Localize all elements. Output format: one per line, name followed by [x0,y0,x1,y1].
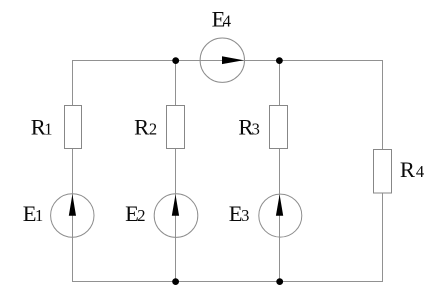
svg-text:R4: R4 [400,157,424,182]
resistor R2 [167,106,185,149]
source E3 arrow [276,195,283,216]
resistor R1 [65,106,82,149]
wire branch 1 vertical [72,60,74,282]
wire branch 4 vertical [382,60,384,282]
wire branch 3 vertical [279,60,281,282]
source E1 circle [51,194,94,237]
junction dot top branch 2 [172,57,179,64]
wire top horizontal [72,60,383,62]
svg-text:E2: E2 [125,201,145,226]
junction dot top branch 3 [276,57,283,64]
wire branch 2 vertical [175,60,177,282]
svg-text:R2: R2 [134,114,157,139]
svg-text:E3: E3 [229,201,250,226]
resistor R4 [374,150,392,194]
resistor R3 [270,106,288,149]
junction dot bottom branch 2 [172,278,179,285]
source E2 circle [154,194,198,238]
source E3 circle [259,194,302,237]
source E4 arrow [222,56,244,64]
source E4 circle [200,38,244,82]
svg-text:E4: E4 [212,7,231,32]
wire bottom horizontal [72,281,383,283]
junction dot bottom branch 3 [276,278,283,285]
svg-text:E1: E1 [23,201,44,226]
svg-text:R3: R3 [238,114,259,139]
source E1 arrow [69,194,76,216]
source E2 arrow [172,195,179,216]
svg-text:R1: R1 [31,114,53,139]
